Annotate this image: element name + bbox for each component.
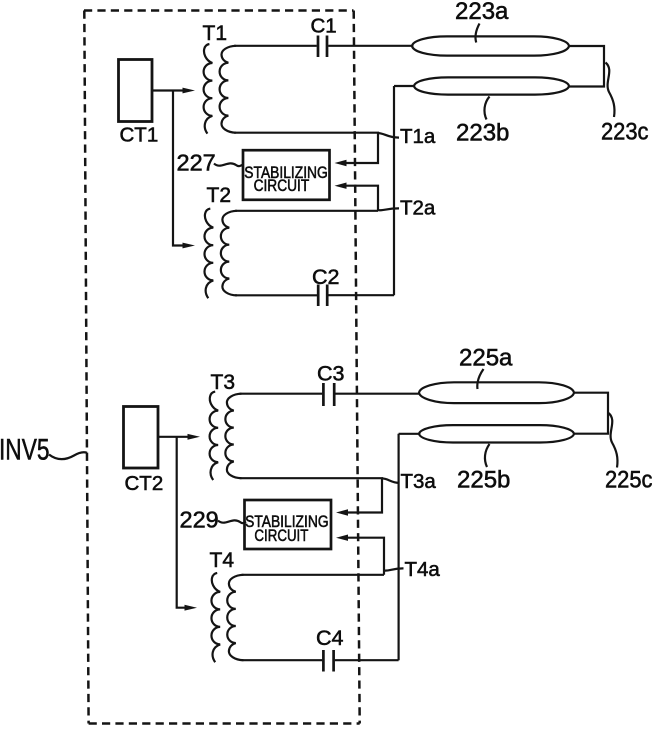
svg-text:T1a: T1a [400,125,436,148]
wire vertical return line to C4 [398,434,400,661]
wire lamp 225a right to lamp 225b right [574,393,608,434]
svg-text:CT1: CT1 [120,124,159,147]
wire T4 secondary top [242,574,385,576]
wire lamp 223b left to node line [394,85,415,87]
svg-text:INV5: INV5 [0,434,50,467]
lamp 223a [412,36,569,55]
svg-text:CIRCUIT: CIRCUIT [254,177,310,195]
control block CT2 [124,407,159,469]
leader 223b [484,97,489,120]
node T1a tie curve [378,133,399,138]
svg-text:C2: C2 [312,265,339,289]
wire T1 secondary bottom [234,133,378,163]
wire T2 secondary top feedback [346,186,378,211]
leader 227 to box [214,163,243,166]
svg-text:C1: C1 [311,15,337,38]
svg-text:CT2: CT2 [125,472,164,495]
arrowhead into T1 primary [183,88,196,94]
svg-text:229: 229 [180,507,219,533]
capacitor C1 right plate [326,36,329,58]
arrowhead into T3 primary [188,434,201,440]
capacitor C2 right plate [326,285,329,307]
wire C2 to return line [328,294,394,296]
wire C1 to lamp 223a [328,45,413,47]
capacitor C1 left plate [317,36,320,58]
svg-text:T2: T2 [207,184,232,207]
wire vertical return line to C2 [393,86,395,295]
svg-text:T3: T3 [211,371,236,394]
stabilizing circuit box 227 [243,150,330,200]
svg-text:T2a: T2a [400,197,436,220]
wire CT1 to T1 primary [153,89,185,91]
wire T2 secondary top [235,210,378,212]
wire C4 to return line [335,659,399,661]
inverter enclosure INV5 dashed box : top edge [84,9,354,12]
arrowhead into stabilizing circuit 227 lower [335,183,347,189]
svg-text:223b: 223b [456,120,509,147]
leader 229 to box [218,520,246,523]
arrowhead into stabilizing circuit 229 upper [336,509,348,515]
transformer T3 secondary winding [225,394,241,479]
capacitor C3 left plate [322,383,325,406]
inverter enclosure dashed box : left edge [84,11,88,724]
svg-text:225b: 225b [457,467,510,494]
arrowhead into T4 primary [185,605,198,611]
control block CT1 [119,60,153,122]
node T4a tie curve [384,568,404,570]
svg-text:225c: 225c [605,467,652,494]
lamp 225a [419,382,574,403]
transformer T2 secondary winding [221,211,237,296]
stabilizing circuit box 229 [245,500,332,549]
capacitor C4 right plate [332,650,335,672]
lamp 225b [419,425,574,442]
node T2a tie curve [378,208,399,210]
svg-text:T4: T4 [210,549,235,572]
leader 225b [485,444,490,467]
svg-text:CIRCUIT: CIRCUIT [254,527,308,545]
wire junction drop to T2 primary [173,91,184,246]
svg-text:223a: 223a [455,0,509,25]
leader 225c [609,413,618,468]
transformer T1 secondary winding [220,46,237,133]
wire T3 secondary bottom [240,478,383,512]
wire T1 secondary top to C1 [234,45,317,47]
wire T4 secondary bottom to C4 [242,659,323,661]
svg-text:C3: C3 [317,362,345,386]
inverter enclosure dashed box : right edge [354,11,360,724]
wire T2 secondary bottom to C2 [235,294,317,296]
leader 223c [606,63,615,118]
svg-text:223c: 223c [601,119,649,146]
svg-text:225a: 225a [459,345,513,372]
wire CT2 to T3 primary [159,436,189,438]
lamp 223b [414,77,569,94]
transformer T2 primary winding [205,209,214,299]
capacitor C3 right plate [333,383,336,406]
svg-text:T4a: T4a [405,558,441,581]
svg-text:T1: T1 [203,22,228,45]
node T3a tie curve [382,478,400,483]
leader INV5 to box [49,452,87,459]
wire junction drop to T4 primary [177,437,186,608]
wire C3 to lamp 225a [335,393,420,395]
inverter enclosure dashed box : bottom edge [89,722,360,725]
wire T4 secondary top feedback [348,538,385,575]
transformer T3 primary winding [210,392,219,480]
svg-text:227: 227 [177,150,216,176]
wire lamp 225b left to node line [399,433,421,435]
transformer T4 secondary winding [227,575,243,660]
capacitor C4 left plate [322,650,325,672]
arrowhead into stabilizing circuit 229 lower [336,535,348,541]
transformer T4 primary winding [211,573,220,662]
capacitor C2 left plate [317,285,320,307]
arrowhead into T2 primary [183,243,196,249]
leader 225a [477,369,483,389]
leader 223a [475,24,479,43]
svg-text:T3a: T3a [401,470,437,493]
transformer T1 primary winding [204,44,213,134]
wire lamp 223a right to lamp 223b right [569,46,605,87]
wire T3 secondary top to C3 [240,393,323,395]
svg-text:C4: C4 [316,626,344,650]
arrowhead into stabilizing circuit 227 upper [335,160,347,166]
